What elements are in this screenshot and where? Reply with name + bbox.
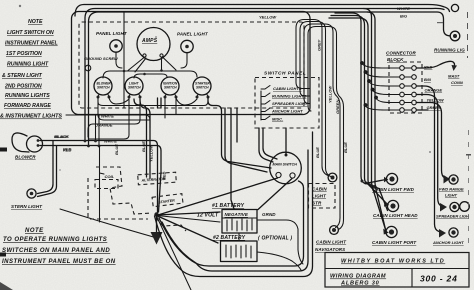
svg-text:FWD RANGE: FWD RANGE bbox=[439, 187, 464, 192]
wire to battery 1 bbox=[258, 179, 292, 210]
svg-text:CABIN LIGHT: CABIN LIGHT bbox=[316, 240, 347, 245]
svg-text:ANCHOR LIGHT: ANCHOR LIGHT bbox=[432, 240, 464, 245]
wire white top run bbox=[85, 8, 444, 141]
svg-text:SWITCH: SWITCH bbox=[196, 86, 209, 90]
light switch bbox=[125, 77, 143, 95]
batteries bbox=[157, 203, 292, 262]
svg-text:YELLOW: YELLOW bbox=[328, 85, 333, 103]
wires panel to engine bbox=[84, 98, 277, 222]
cabin light STR bbox=[309, 173, 337, 208]
svg-text:NOTE: NOTE bbox=[28, 19, 43, 25]
drops from switches bbox=[98, 98, 150, 120]
stern light bbox=[27, 189, 36, 198]
svg-text:MISC.: MISC. bbox=[272, 117, 283, 122]
panel light stems bbox=[116, 53, 122, 69]
svg-text:#2 BATTERY: #2 BATTERY bbox=[213, 235, 246, 241]
svg-text:BLUE: BLUE bbox=[141, 141, 146, 152]
ammeter AMPS bbox=[137, 28, 170, 61]
wire to masthead light bbox=[89, 12, 450, 146]
svg-text:#1 BATTERY: #1 BATTERY bbox=[212, 203, 245, 209]
svg-text:CABIN LIGHT HEAD: CABIN LIGHT HEAD bbox=[373, 213, 418, 218]
cabin light fwd bbox=[372, 173, 415, 192]
svg-text:AMPS: AMPS bbox=[141, 38, 158, 44]
svg-text:MAST: MAST bbox=[448, 74, 460, 79]
inner loop bbox=[159, 181, 304, 266]
wire top run 2 bbox=[75, 5, 443, 17]
svg-text:YELLOW: YELLOW bbox=[149, 144, 154, 162]
svg-text:B/G: B/G bbox=[400, 14, 407, 19]
ground arrow bbox=[151, 232, 163, 245]
wire to junction bbox=[158, 178, 278, 215]
right light feeders bbox=[416, 86, 444, 232]
svg-text:YELLOW: YELLOW bbox=[259, 15, 277, 20]
junction node bbox=[154, 212, 158, 216]
cabin light feeders bbox=[329, 9, 389, 235]
svg-text:NEGATIVE: NEGATIVE bbox=[225, 212, 249, 217]
svg-text:WHITBY BOAT WORKS LTD: WHITBY BOAT WORKS LTD bbox=[341, 259, 445, 265]
cabin light port bbox=[372, 226, 417, 245]
svg-text:BLUE: BLUE bbox=[114, 144, 119, 155]
svg-text:RUNNING LIGHTS: RUNNING LIGHTS bbox=[272, 94, 307, 99]
wire to bottom edge bbox=[157, 216, 192, 290]
wire to coil bbox=[99, 146, 101, 222]
svg-text:( OPTIONAL ): ( OPTIONAL ) bbox=[258, 236, 292, 242]
battery 2 out bbox=[257, 252, 301, 270]
ground wire bbox=[156, 215, 158, 233]
svg-text:BLUE: BLUE bbox=[315, 147, 320, 158]
svg-text:STERN LIGHT: STERN LIGHT bbox=[11, 204, 43, 209]
connector block bbox=[361, 51, 445, 114]
starter switch bbox=[193, 77, 211, 95]
to fwd light bbox=[365, 180, 386, 184]
svg-text:GREEN: GREEN bbox=[335, 100, 340, 114]
svg-text:ANCHOR LIGHT: ANCHOR LIGHT bbox=[271, 109, 303, 114]
svg-text:LIGHT: LIGHT bbox=[445, 193, 458, 198]
svg-text:BLOCK: BLOCK bbox=[387, 57, 404, 62]
svg-text:PANEL LIGHT: PANEL LIGHT bbox=[177, 32, 209, 37]
svg-text:& INSTRUMENT LIGHTS: & INSTRUMENT LIGHTS bbox=[0, 114, 62, 120]
svg-text:CABIN LIGHT FWD: CABIN LIGHT FWD bbox=[372, 187, 415, 192]
blower switch bbox=[94, 77, 112, 95]
wires to main switch / battery bbox=[208, 98, 271, 168]
blower circuit bbox=[11, 133, 161, 238]
svg-text:RUNNING LIG: RUNNING LIG bbox=[434, 48, 465, 53]
svg-text:2ND POSITION: 2ND POSITION bbox=[4, 84, 42, 90]
wire drop through panel bbox=[123, 12, 125, 108]
svg-text:COIL: COIL bbox=[105, 174, 115, 179]
wire main switch up bbox=[285, 128, 287, 155]
switch panel bbox=[255, 71, 319, 129]
running light arrow bbox=[416, 48, 465, 86]
svg-text:CONN: CONN bbox=[451, 80, 463, 85]
battery 1 out bbox=[257, 220, 303, 264]
svg-text:CONNECTOR: CONNECTOR bbox=[386, 51, 416, 56]
main switch bbox=[158, 128, 301, 215]
top wire bundle bbox=[75, 4, 460, 146]
svg-text:CABIN LIGHT PORT: CABIN LIGHT PORT bbox=[372, 240, 417, 245]
svg-text:BLOWER: BLOWER bbox=[15, 155, 36, 160]
svg-text:NOTE: NOTE bbox=[25, 228, 44, 234]
svg-text:BLACK: BLACK bbox=[54, 134, 69, 139]
svg-text:GRND: GRND bbox=[262, 212, 276, 217]
svg-text:FORWARD RANGE: FORWARD RANGE bbox=[4, 103, 51, 109]
fwd range light bbox=[439, 175, 464, 198]
cabin light head bbox=[373, 200, 418, 218]
note bottom-left bbox=[2, 228, 116, 265]
svg-text:1ST POSITION: 1ST POSITION bbox=[6, 51, 42, 57]
svg-text:B/N: B/N bbox=[424, 77, 431, 82]
cabin light navigators bbox=[315, 226, 347, 252]
svg-text:INSTRUMENT PANEL: INSTRUMENT PANEL bbox=[5, 41, 58, 47]
spreader light bbox=[436, 202, 469, 219]
svg-text:ORANGE: ORANGE bbox=[95, 123, 113, 128]
svg-text:WIRING DIAGRAM: WIRING DIAGRAM bbox=[330, 274, 386, 280]
svg-text:RUNNING LIGHTS: RUNNING LIGHTS bbox=[5, 93, 50, 99]
wire labels panel area bbox=[55, 114, 117, 152]
switch levers bbox=[261, 86, 270, 121]
starter bbox=[152, 194, 183, 207]
svg-text:RED: RED bbox=[63, 148, 72, 153]
svg-text:GREY: GREY bbox=[317, 39, 322, 51]
amps fan wires bbox=[128, 58, 144, 71]
running light top right bbox=[443, 7, 450, 12]
ignition switch bbox=[161, 77, 179, 95]
engine outline bbox=[88, 167, 186, 231]
wire blue bbox=[134, 99, 147, 177]
panel internal wiring bbox=[66, 12, 208, 139]
bus above switches bbox=[103, 71, 197, 78]
wire black bbox=[40, 141, 158, 214]
svg-text:SWITCH: SWITCH bbox=[97, 86, 110, 90]
svg-text:MAIN SWITCH: MAIN SWITCH bbox=[273, 163, 298, 167]
engine block bbox=[88, 167, 186, 245]
svg-text:300 - 24: 300 - 24 bbox=[420, 274, 458, 284]
title block bbox=[325, 253, 469, 288]
svg-text:INSTRUMENT PANEL MUST BE: INSTRUMENT PANEL MUST BE ON bbox=[2, 259, 116, 265]
svg-text:SPREADER LIGH: SPREADER LIGH bbox=[436, 214, 469, 219]
instrument panel outer box bbox=[72, 12, 311, 115]
wires to junction bbox=[157, 98, 159, 108]
svg-text:WHITE: WHITE bbox=[397, 6, 410, 11]
svg-text:GROUND SCREW: GROUND SCREW bbox=[84, 56, 119, 61]
svg-text:PANEL LIGHT: PANEL LIGHT bbox=[96, 31, 128, 36]
svg-text:CABIN: CABIN bbox=[312, 187, 327, 192]
svg-text:ALBERG 30: ALBERG 30 bbox=[340, 281, 380, 287]
svg-text:SWITCHES ON MAIN PANEL: SWITCHES ON MAIN PANEL AND bbox=[2, 248, 110, 254]
svg-text:SWITCH: SWITCH bbox=[164, 86, 177, 90]
svg-text:TO OPERATE RUNNING LIGHTS: TO OPERATE RUNNING LIGHTS bbox=[3, 237, 107, 243]
junction to batteries bbox=[157, 212, 220, 215]
svg-text:SWITCH: SWITCH bbox=[128, 86, 141, 90]
svg-text:STR: STR bbox=[312, 201, 322, 206]
stern light wires bbox=[38, 141, 54, 194]
wire red bbox=[40, 146, 161, 213]
switch jumpers bbox=[109, 98, 129, 104]
svg-text:BLUE: BLUE bbox=[343, 142, 348, 153]
blower scroll bbox=[12, 133, 29, 152]
masthead light symbol bbox=[450, 31, 460, 41]
outer loop bbox=[155, 132, 313, 277]
feeds from left bbox=[361, 62, 400, 110]
svg-text:SPREADER LIGHT: SPREADER LIGHT bbox=[272, 101, 308, 106]
switch panel risers bbox=[296, 20, 348, 230]
alternator bbox=[138, 172, 177, 185]
svg-text:LIGHT: LIGHT bbox=[312, 194, 327, 199]
svg-text:RUNNING LIGHT: RUNNING LIGHT bbox=[7, 62, 49, 68]
bottom ground loops bbox=[155, 132, 313, 290]
svg-text:NAVIGATORS: NAVIGATORS bbox=[315, 247, 345, 252]
svg-text:WHITE: WHITE bbox=[101, 114, 114, 119]
anchor light bbox=[432, 228, 464, 245]
stern ground wire bbox=[60, 209, 157, 238]
wire yellow bbox=[140, 99, 150, 178]
middle loop bbox=[162, 150, 308, 271]
note top-left bbox=[0, 19, 62, 120]
svg-text:LIGHT SWITCH ON: LIGHT SWITCH ON bbox=[7, 30, 54, 36]
svg-text:& STERN LIGHT: & STERN LIGHT bbox=[2, 73, 43, 79]
